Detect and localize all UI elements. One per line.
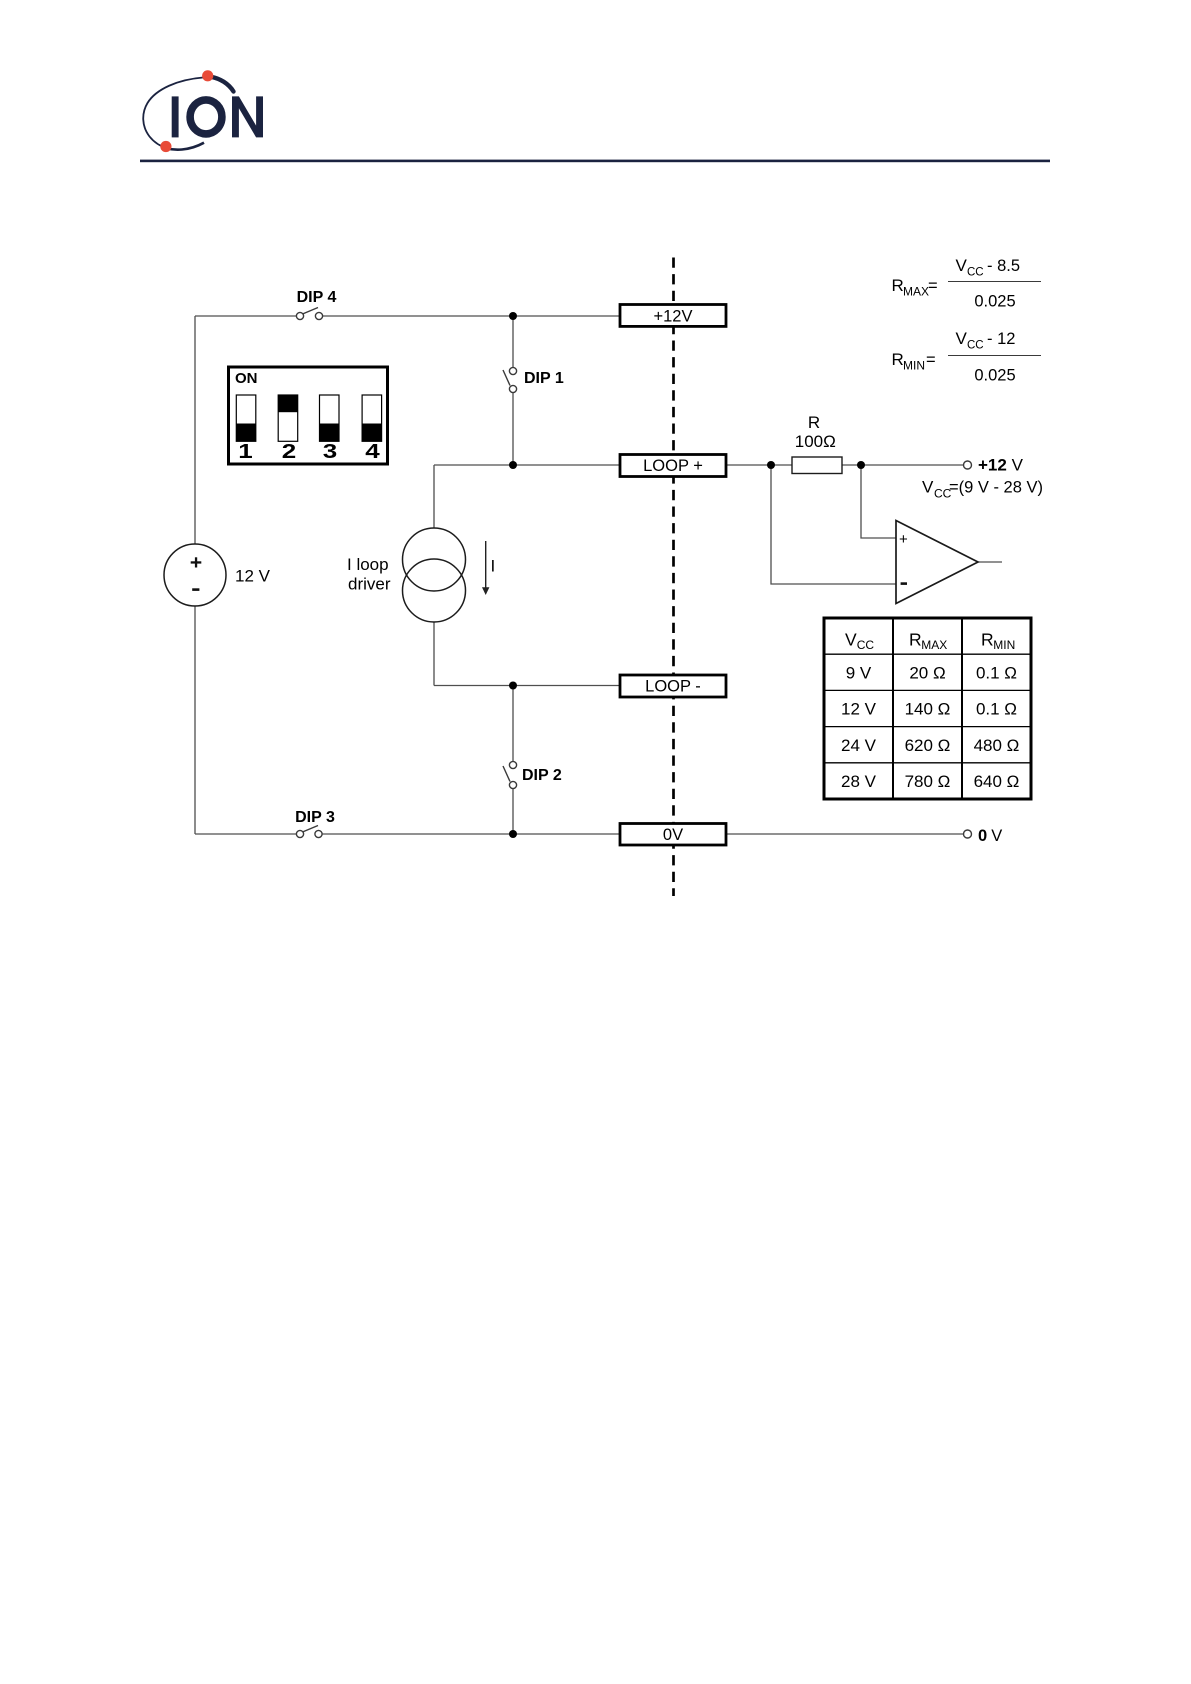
svg-text:28 V: 28 V xyxy=(841,772,877,791)
svg-text:480 Ω: 480 Ω xyxy=(974,736,1020,755)
svg-text:DIP 4: DIP 4 xyxy=(297,289,337,306)
svg-text:DIP 1: DIP 1 xyxy=(524,370,564,387)
svg-text:R: R xyxy=(981,630,994,650)
svg-text:V: V xyxy=(956,256,968,275)
svg-text:CC: CC xyxy=(967,267,984,279)
svg-text:12 V: 12 V xyxy=(841,700,877,719)
svg-text:=(9 V - 28 V): =(9 V - 28 V) xyxy=(949,479,1043,497)
svg-text:ON: ON xyxy=(235,370,258,387)
svg-text:MIN: MIN xyxy=(993,638,1015,652)
svg-text:R: R xyxy=(909,630,922,650)
svg-text:140 Ω: 140 Ω xyxy=(905,700,951,719)
svg-text:I: I xyxy=(491,557,496,576)
svg-text:CC: CC xyxy=(967,340,984,352)
svg-text:V: V xyxy=(991,827,1002,845)
svg-text:100Ω: 100Ω xyxy=(795,432,836,451)
svg-text:+12V: +12V xyxy=(654,308,693,326)
svg-text:I loop: I loop xyxy=(347,555,389,574)
svg-text:V: V xyxy=(956,329,968,348)
svg-text:24 V: 24 V xyxy=(841,736,877,755)
svg-text:780 Ω: 780 Ω xyxy=(905,772,951,791)
svg-text:MAX: MAX xyxy=(903,285,929,299)
svg-text:0V: 0V xyxy=(663,826,683,844)
svg-text:12 V: 12 V xyxy=(235,567,271,586)
svg-text:DIP 2: DIP 2 xyxy=(522,767,562,784)
svg-text:0.025: 0.025 xyxy=(974,293,1015,311)
svg-text:MIN: MIN xyxy=(903,359,925,373)
svg-text:640 Ω: 640 Ω xyxy=(974,772,1020,791)
svg-text:0.1 Ω: 0.1 Ω xyxy=(976,664,1017,683)
svg-text:V: V xyxy=(845,630,857,650)
svg-text:LOOP +: LOOP + xyxy=(643,457,703,475)
svg-text:4: 4 xyxy=(365,440,380,462)
svg-text:0: 0 xyxy=(978,827,987,845)
svg-text:0.025: 0.025 xyxy=(974,367,1015,385)
svg-text:+: + xyxy=(899,531,908,548)
svg-text:=: = xyxy=(928,277,938,295)
svg-text:- 12: - 12 xyxy=(987,330,1015,348)
svg-text:620 Ω: 620 Ω xyxy=(905,736,951,755)
svg-text:3: 3 xyxy=(323,440,338,462)
svg-text:2: 2 xyxy=(282,440,296,462)
svg-text:0.1 Ω: 0.1 Ω xyxy=(976,700,1017,719)
svg-text:- 8.5: - 8.5 xyxy=(987,257,1020,275)
svg-text:+12 V: +12 V xyxy=(978,456,1024,475)
svg-text:LOOP -: LOOP - xyxy=(645,678,701,696)
svg-text:driver: driver xyxy=(348,575,391,594)
svg-text:R: R xyxy=(892,350,904,369)
svg-text:V: V xyxy=(922,478,934,497)
svg-text:CC: CC xyxy=(857,638,875,652)
svg-text:MAX: MAX xyxy=(921,638,947,652)
svg-text:1: 1 xyxy=(238,440,253,462)
svg-text:20 Ω: 20 Ω xyxy=(909,664,945,683)
svg-text:DIP 3: DIP 3 xyxy=(295,809,335,826)
svg-text:R: R xyxy=(808,413,820,432)
svg-text:R: R xyxy=(892,276,904,295)
svg-text:9 V: 9 V xyxy=(846,664,872,683)
svg-text:=: = xyxy=(926,351,936,369)
